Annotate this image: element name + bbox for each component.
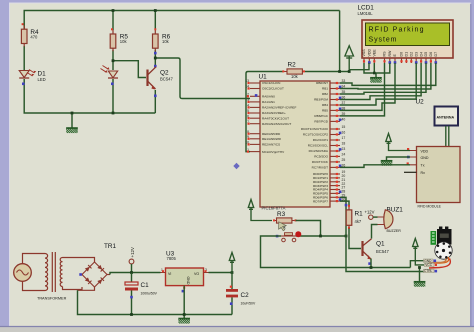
resistor R3	[273, 211, 297, 230]
wire R6 to Q2 collector	[154, 50, 156, 66]
svg-text:VEE: VEE	[373, 49, 377, 57]
svg-text:+12V: +12V	[130, 247, 135, 257]
junction gnd stem	[418, 266, 421, 269]
svg-text:D3: D3	[414, 52, 418, 57]
svg-text:PIC16F877A: PIC16F877A	[262, 206, 286, 211]
svg-text:Q2: Q2	[160, 70, 169, 77]
junction U3 gnd rail	[183, 313, 186, 316]
svg-text:Q1: Q1	[376, 241, 385, 248]
blue mark RD6 wire	[345, 204, 348, 207]
regulator U3 7805	[161, 251, 209, 293]
svg-text:D0: D0	[400, 52, 404, 57]
wire top rail	[24, 11, 339, 30]
wire RS	[340, 63, 385, 116]
servo pin labels	[424, 259, 435, 273]
origin marker blue diamond	[233, 163, 239, 169]
svg-text:RC4/SDI/SDA: RC4/SDI/SDA	[309, 149, 329, 153]
wire Q1 collector to buzzer	[372, 225, 378, 239]
svg-text:RA2/AN2/VREF-/CVREF: RA2/AN2/VREF-/CVREF	[262, 106, 296, 110]
primary coil	[45, 254, 48, 291]
svg-text:RB5: RB5	[322, 109, 328, 113]
wire top rail drop	[339, 11, 341, 72]
module pin stubs	[410, 151, 417, 165]
power arrow servo vcc	[413, 239, 424, 265]
wire RD7 to R1	[340, 201, 349, 206]
LCD ground bus VSS VEE RW	[349, 63, 390, 77]
buzzer BUZ1	[378, 207, 404, 234]
svg-text:R1: R1	[355, 211, 364, 218]
svg-text:10k: 10k	[120, 39, 128, 44]
junction top rail R6	[154, 9, 157, 12]
svg-text:10k: 10k	[291, 74, 299, 79]
svg-text:16: 16	[342, 131, 346, 135]
svg-text:7805: 7805	[167, 256, 177, 261]
svg-text:RB2: RB2	[322, 92, 328, 96]
bridge rectifier	[82, 262, 107, 287]
svg-text:D5: D5	[424, 52, 428, 57]
svg-text:MCLR/Vpp/THV: MCLR/Vpp/THV	[262, 150, 285, 154]
resistor R6	[153, 28, 171, 67]
svg-text:D4: D4	[419, 52, 423, 57]
resistor R2	[282, 61, 305, 79]
svg-text:RA1/AN1: RA1/AN1	[262, 100, 275, 104]
svg-text:VDD: VDD	[421, 149, 429, 153]
wire servo gnd jog	[410, 261, 424, 268]
svg-text:4k7: 4k7	[355, 219, 362, 224]
svg-text:GND: GND	[186, 277, 190, 285]
svg-text:C1: C1	[141, 282, 150, 289]
servo green strip	[431, 231, 437, 245]
transistor Q1	[363, 239, 390, 265]
capacitor C1	[125, 273, 158, 315]
ac source V1	[14, 254, 45, 291]
wire Q1 emitter to gnd rail	[370, 259, 372, 268]
svg-text:18: 18	[342, 142, 346, 146]
svg-text:40: 40	[342, 118, 346, 122]
junction R1 column	[345, 235, 348, 238]
junction Q1 emitter rail	[370, 266, 373, 269]
wire D4	[340, 63, 421, 100]
servo dial	[435, 242, 452, 259]
photodiode D2	[101, 66, 119, 86]
LCD body	[362, 20, 453, 58]
wire Q2 collector to U1 RA0	[155, 58, 250, 99]
wire U3 gnd stem	[183, 286, 185, 318]
svg-text:+12V: +12V	[365, 210, 375, 215]
wire D5	[340, 63, 426, 94]
wire button left loop to gnd rail	[261, 236, 411, 268]
servo motor	[424, 227, 453, 274]
svg-text:RB0/INT: RB0/INT	[316, 81, 328, 85]
power arrow for RFID VDD	[386, 134, 410, 151]
svg-text:LED: LED	[38, 77, 46, 82]
wire vss	[364, 63, 376, 73]
LCD data fan wires to U1 port B	[340, 63, 436, 116]
svg-text:BUZZER: BUZZER	[387, 229, 402, 233]
svg-text:RA3/AN3/VREF+: RA3/AN3/VREF+	[262, 111, 286, 115]
terminal +12V buzzer	[365, 210, 378, 220]
svg-text:D6: D6	[429, 52, 433, 57]
wire R1 to Q1 base	[349, 229, 361, 249]
wire vdd to arrow	[349, 63, 369, 70]
wire R2 left to MCLR	[246, 72, 283, 152]
junction top rail R5	[112, 9, 115, 12]
svg-text:23: 23	[342, 147, 346, 151]
svg-text:10uF/50V: 10uF/50V	[241, 302, 256, 306]
svg-text:RB3/PGM: RB3/PGM	[314, 98, 328, 102]
svg-text:RW: RW	[388, 50, 392, 57]
push button	[276, 231, 302, 242]
svg-text:RA0/AN0: RA0/AN0	[262, 95, 275, 99]
svg-text:System: System	[369, 37, 397, 44]
wire R5 to photodiode	[112, 50, 114, 70]
wire vee	[373, 63, 375, 73]
junction vee bus	[373, 72, 376, 75]
svg-text:RE0/AN5/RD: RE0/AN5/RD	[262, 132, 281, 136]
svg-text:RB6/PGC: RB6/PGC	[314, 114, 328, 118]
wire RFID Tx to U1 RC7	[340, 165, 410, 168]
svg-text:RB7/PGD: RB7/PGD	[314, 120, 328, 124]
svg-text:TR1: TR1	[104, 243, 117, 250]
wire D6	[340, 63, 431, 89]
wire D1 to bottom rail	[24, 79, 155, 113]
wire E	[340, 63, 395, 110]
wire D3	[340, 63, 416, 105]
servo wires	[429, 257, 449, 263]
wire bridge bottom to bottom rail	[78, 287, 95, 290]
antenna ANT1	[435, 107, 459, 147]
terminal +12V main	[129, 247, 135, 272]
svg-text:RC2/CCP1: RC2/CCP1	[313, 138, 329, 142]
power arrow 5V rail	[229, 253, 234, 273]
junction R2/toprail	[338, 70, 341, 73]
junction Q2 collector node	[154, 57, 157, 60]
power arrow under U1	[248, 200, 272, 221]
svg-text:VSS: VSS	[362, 49, 366, 57]
svg-text:470: 470	[30, 34, 38, 39]
junction +12V/C1	[130, 271, 133, 274]
junction rail ground	[71, 112, 74, 115]
mouse cursor artifact	[279, 222, 287, 231]
svg-text:D2: D2	[410, 52, 414, 57]
LCD screen	[366, 23, 450, 46]
svg-text:C2: C2	[241, 292, 250, 299]
svg-text:TRANSFORMER: TRANSFORMER	[37, 297, 67, 301]
svg-text:D7: D7	[434, 52, 438, 57]
rfid module body	[404, 147, 460, 209]
svg-text:Rx: Rx	[421, 171, 426, 175]
grey strip below sheet	[0, 327, 474, 332]
svg-text:RA5/AN4/SS/C2OUT: RA5/AN4/SS/C2OUT	[262, 122, 291, 126]
core	[52, 252, 55, 292]
svg-text:RC6/TX/CK: RC6/TX/CK	[312, 160, 329, 164]
junction rail photodiode	[112, 112, 115, 115]
svg-text:VCC: VCC	[425, 263, 432, 267]
junction C1 bottom rail	[130, 313, 133, 316]
svg-text:GND: GND	[421, 156, 429, 160]
svg-text:RA4/T0CKI/C1OUT: RA4/T0CKI/C1OUT	[262, 116, 289, 120]
servo black body	[437, 229, 452, 245]
LED D1	[19, 70, 46, 86]
svg-text:LM016L: LM016L	[358, 11, 374, 16]
wire antenna feed	[446, 126, 449, 147]
svg-text:VDD: VDD	[368, 49, 372, 57]
junction button node	[319, 235, 322, 238]
LCD pin labels	[362, 49, 438, 57]
svg-text:RC3/SCK/SCL: RC3/SCK/SCL	[308, 144, 329, 148]
wire Q2 emitter down	[154, 90, 156, 113]
svg-text:CTRL: CTRL	[424, 269, 433, 273]
secondary coil	[60, 258, 62, 287]
wire bridge out to VI rail	[107, 274, 110, 276]
wire R6 riser	[154, 11, 156, 31]
svg-text:RC0/T1OSO/T1CKI: RC0/T1OSO/T1CKI	[301, 127, 328, 131]
svg-text:U1: U1	[259, 74, 268, 81]
svg-text:RE2/AN7/CS: RE2/AN7/CS	[262, 143, 280, 147]
transformer TR1	[37, 243, 117, 301]
junction R5 node	[112, 59, 115, 62]
wire RD6 drop to button/ctrl column	[340, 197, 424, 271]
svg-text:RE1/AN6/WR: RE1/AN6/WR	[262, 137, 282, 141]
wire R4 to D1	[23, 46, 25, 70]
svg-text:RB4: RB4	[322, 103, 328, 107]
svg-text:OSC2/CLKOUT: OSC2/CLKOUT	[262, 87, 284, 91]
wire gnd stem	[375, 73, 377, 77]
wire photodiode to rail	[112, 79, 114, 113]
svg-text:RC1/T1OSI/CCP2: RC1/T1OSI/CCP2	[303, 133, 328, 137]
svg-text:VO: VO	[194, 272, 199, 276]
wire RFID GND	[387, 157, 411, 160]
wire rw	[376, 63, 390, 73]
junction C2 node	[231, 271, 234, 274]
svg-text:BC547: BC547	[160, 77, 173, 82]
resistor R5	[110, 28, 128, 51]
wire R5 riser	[112, 11, 114, 31]
svg-text:U2: U2	[416, 98, 425, 105]
svg-text:BC547: BC547	[376, 249, 389, 254]
svg-text:D1: D1	[405, 52, 409, 57]
svg-text:1000u/50V: 1000u/50V	[141, 292, 158, 296]
svg-text:R2: R2	[288, 61, 297, 68]
power +5V arrow near LCD	[345, 46, 354, 72]
svg-text:RC5/SDO: RC5/SDO	[314, 155, 328, 159]
resistor R1	[346, 205, 363, 229]
svg-text:VI: VI	[168, 272, 171, 276]
svg-text:R3: R3	[277, 211, 286, 218]
svg-text:RB1: RB1	[322, 87, 328, 91]
svg-text:24: 24	[342, 153, 346, 157]
svg-text:RC7/RX/DT: RC7/RX/DT	[312, 166, 328, 170]
svg-text:OSC1/CLKIN: OSC1/CLKIN	[262, 81, 280, 85]
svg-text:RFID Parking: RFID Parking	[369, 27, 424, 34]
svg-text:10k: 10k	[162, 39, 170, 44]
svg-text:Tx: Tx	[421, 164, 425, 168]
svg-text:15: 15	[342, 125, 346, 129]
svg-text:25: 25	[342, 158, 346, 162]
wire U3 VO to C2 node	[209, 272, 233, 274]
chip U1 body	[259, 74, 331, 211]
wire R3 right to button node	[296, 221, 321, 237]
resistor R4	[21, 23, 39, 46]
pin Rx stub	[404, 171, 417, 173]
svg-text:ANTENNA: ANTENNA	[437, 116, 455, 120]
transistor Q2	[148, 67, 174, 97]
wire button row	[296, 235, 346, 237]
svg-text:17: 17	[342, 136, 346, 140]
wire R2 right to VDD node	[305, 71, 349, 73]
U1 pins	[245, 79, 296, 154]
svg-text:RS: RS	[383, 51, 387, 57]
svg-text:RD7/PSP7: RD7/PSP7	[313, 199, 328, 203]
svg-text:RFID MODULE: RFID MODULE	[418, 205, 442, 209]
wire R5 node to Q2 base	[113, 61, 146, 78]
wire ground stub sensor rail	[71, 113, 73, 128]
junction arrow stem	[348, 70, 351, 73]
wire D7	[340, 63, 436, 85]
capacitor C2	[226, 273, 256, 315]
ground stem rail right	[419, 268, 421, 282]
